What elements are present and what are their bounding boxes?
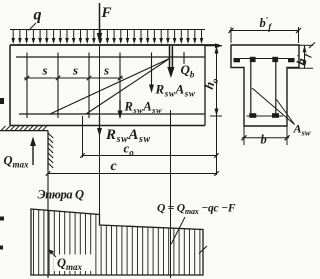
svg-text:Asw: Asw — [293, 122, 311, 138]
stirrup leg right — [275, 62, 277, 114]
extension line under F (x=99.5) — [99, 46, 101, 225]
force Qb double arrow — [167, 46, 174, 78]
bottom longitudinal rebar line — [19, 113, 205, 115]
support edge extension through diagram (x=48) — [47, 170, 49, 278]
top longitudinal rebar line — [16, 56, 205, 58]
leader from formula — [171, 217, 185, 244]
stirrup force arrow RswAsw #3 — [97, 116, 102, 137]
h'f dimension — [288, 43, 315, 69]
svg-text:RswAsw: RswAsw — [155, 82, 196, 99]
stirrup force arrow RswAsw #1 — [149, 85, 154, 94]
svg-text:RswAsw: RswAsw — [124, 100, 163, 116]
scan edge artifacts — [0, 98, 4, 250]
h0 dimension line — [205, 43, 223, 116]
svg-text:Qmax: Qmax — [4, 154, 30, 170]
extension line at right (x=216.5) — [216, 116, 218, 175]
inclined crack line — [86, 59, 170, 115]
label Qmax in diagram with leader — [48, 249, 94, 272]
bottom rebar square left — [249, 113, 256, 118]
extension line at crack start (x=82.5) — [82, 116, 84, 158]
c0 dimension line — [80, 153, 219, 158]
svg-text:co: co — [124, 141, 135, 158]
stirrup 5 — [151, 53, 153, 87]
svg-text:s: s — [42, 63, 48, 78]
svg-text:b: b — [261, 133, 267, 147]
top rebar square right — [272, 57, 278, 62]
svg-text:s: s — [103, 63, 109, 78]
svg-text:Q = Qmax −qc −F: Q = Qmax −qc −F — [157, 203, 236, 217]
stirrup 6 (partial) — [183, 52, 185, 64]
reaction Qmax arrow (up) — [30, 137, 36, 166]
Asw leader lines — [252, 88, 295, 125]
svg-text:s: s — [72, 63, 78, 78]
T-section outline — [231, 45, 299, 126]
svg-text:c: c — [111, 159, 118, 174]
distributed load q : top line — [10, 29, 205, 31]
support ground line with hatching — [0, 126, 48, 131]
svg-text:Эпюра Q: Эпюра Q — [38, 188, 84, 202]
s spacing dimension line with ticks — [24, 76, 123, 81]
flange hook mark left — [234, 58, 241, 62]
svg-text:h′f: h′f — [293, 50, 312, 67]
stirrup force arrow RswAsw #2 — [118, 100, 123, 119]
flange stirrup/rebar line — [235, 58, 293, 60]
flange hook mark right — [288, 58, 295, 62]
svg-text:Qb: Qb — [181, 62, 195, 80]
label q with leader — [29, 7, 42, 31]
svg-text:F: F — [101, 5, 112, 21]
bottom rebar line — [247, 115, 284, 117]
bottom rebar square right — [272, 113, 279, 118]
svg-text:b′f: b′f — [260, 16, 273, 32]
c dimension line — [46, 171, 219, 176]
distributed load q : arrows — [11, 30, 203, 45]
support wall edge with hatching — [48, 131, 53, 170]
diagram cut tick at right edge — [199, 246, 207, 254]
force F arrow — [97, 3, 102, 44]
extension line at section tip (x=170.5) — [170, 110, 172, 278]
stirrup leg left — [250, 62, 252, 114]
beam outline — [10, 45, 219, 126]
stirrups 1-4 — [27, 53, 120, 119]
inclined section line (from support) — [50, 59, 170, 115]
svg-text:q: q — [34, 7, 42, 24]
svg-text:ho: ho — [201, 75, 220, 91]
b dimension — [242, 127, 290, 146]
shear diagram vertical hatching — [34, 209, 200, 275]
top rebar square left — [250, 57, 256, 62]
b'f dimension — [229, 27, 302, 43]
shear diagram outline — [31, 209, 203, 275]
